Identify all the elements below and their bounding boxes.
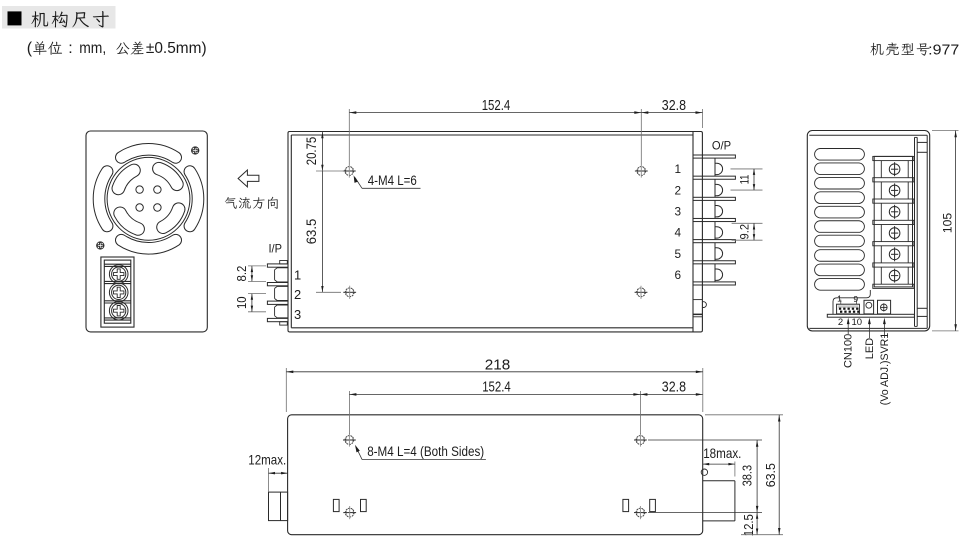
- svg-text::977: :977: [928, 42, 959, 59]
- dim 9.2 (pocket height): [732, 222, 763, 224]
- svg-text:±0.5mm): ±0.5mm): [146, 40, 207, 57]
- dim 63.5 (bottom view): [705, 414, 783, 416]
- panel screw top-right: [192, 147, 199, 154]
- leader arrow SVR1: [883, 320, 885, 338]
- mounting hole top-left: [343, 164, 356, 177]
- input pin flange bars: [267, 264, 288, 267]
- svg-text:12.5: 12.5: [742, 514, 756, 536]
- svg-text:(Vo ADJ.)SVR1: (Vo ADJ.)SVR1: [879, 333, 891, 406]
- svg-text:3: 3: [294, 307, 301, 322]
- output pin flange bars: [693, 155, 735, 158]
- svg-text:5: 5: [675, 247, 682, 261]
- top view outline: [288, 132, 702, 332]
- svg-text:3: 3: [675, 205, 682, 219]
- dim 32.8 (top view): [702, 109, 704, 128]
- mounting hole bottom-right: [635, 286, 648, 299]
- dim 38.3: [648, 439, 762, 441]
- svg-text:152.4: 152.4: [482, 98, 511, 114]
- fan outer vent slots: [116, 144, 182, 164]
- svg-text:LED: LED: [864, 338, 876, 359]
- svg-text:2: 2: [838, 317, 843, 328]
- bottom view slots: [333, 499, 339, 511]
- svg-text:4: 4: [675, 226, 682, 240]
- svg-text:9: 9: [853, 294, 858, 304]
- bump circle on right edge: [701, 469, 707, 475]
- airflow direction arrow: [238, 170, 259, 187]
- output pin pockets: [714, 158, 716, 176]
- svg-text:CN100: CN100: [843, 334, 855, 368]
- side terminal screw 4: [889, 226, 900, 240]
- svg-text:1: 1: [837, 293, 842, 303]
- svg-text:9.2: 9.2: [738, 224, 752, 240]
- side view outline: [807, 131, 929, 331]
- potentiometer SVR1: [878, 300, 891, 314]
- side terminal screw 2: [889, 183, 900, 197]
- svg-text:1: 1: [675, 162, 682, 176]
- dim 105 (side view): [932, 130, 959, 132]
- fan grille ring: [107, 157, 190, 240]
- case model label 机壳型号:977: [870, 43, 883, 56]
- svg-text:11: 11: [738, 174, 752, 184]
- svg-text:O/P: O/P: [712, 139, 731, 152]
- side flange strip: [914, 137, 916, 326]
- airflow direction label 气流方向: [225, 197, 237, 209]
- svg-text:mm,: mm,: [79, 40, 106, 57]
- bottom view mounting hole bottom-left: [343, 506, 356, 519]
- svg-text:2: 2: [294, 287, 301, 302]
- dim 152.4 (bottom view): [348, 391, 350, 434]
- bottom view mounting hole bottom-right: [634, 506, 647, 519]
- side terminal screw 3: [889, 205, 900, 219]
- svg-text:I/P: I/P: [268, 242, 282, 255]
- front terminal screw 2: [109, 283, 128, 302]
- right protrusion (output terminal): [703, 480, 735, 482]
- bottom panel recess outline: [833, 290, 870, 314]
- svg-text:32.8: 32.8: [662, 380, 686, 396]
- svg-text:6: 6: [675, 268, 682, 282]
- side terminal screw 5: [889, 247, 900, 261]
- mounting hole top-right: [635, 164, 648, 177]
- input pin blocks: [275, 268, 288, 282]
- front terminal screw 1: [109, 265, 128, 284]
- dim 20.75 (top view): [321, 132, 323, 172]
- svg-text:1: 1: [294, 267, 301, 282]
- fan hub holes: [136, 186, 143, 193]
- dim 10 (input pin): [248, 293, 266, 295]
- chassis stud bump: [693, 299, 702, 301]
- dim 32.8 (bottom view): [640, 393, 702, 395]
- svg-text:32.8: 32.8: [662, 98, 686, 114]
- front terminal screw 3: [109, 301, 128, 320]
- side terminal screw 6: [889, 269, 900, 283]
- svg-text:8-M4 L=4 (Both Sides): 8-M4 L=4 (Both Sides): [367, 444, 484, 459]
- svg-text:10: 10: [235, 296, 249, 309]
- top view inner edge lines: [290, 135, 292, 328]
- svg-text:105: 105: [941, 213, 955, 233]
- leader arrow CN100: [847, 320, 849, 334]
- dim 11 (output pin pitch): [731, 168, 763, 170]
- connector CN100: [837, 304, 860, 314]
- dim 63.5 (top view): [321, 171, 323, 292]
- svg-text:38.3: 38.3: [741, 465, 755, 486]
- svg-text:63.5: 63.5: [764, 463, 778, 487]
- title bullet square: [8, 11, 22, 25]
- dim 8.2 (input pin): [248, 265, 266, 267]
- svg-text:218: 218: [485, 357, 511, 373]
- dim 12.5: [756, 513, 758, 535]
- fan inner vent slots: [153, 162, 184, 190]
- side view inner edges: [809, 134, 927, 136]
- svg-text:(: (: [27, 40, 33, 57]
- panel screw mid-left: [97, 242, 104, 249]
- svg-text::: :: [68, 40, 72, 57]
- LED: [864, 300, 874, 314]
- svg-text:4-M4 L=6: 4-M4 L=6: [368, 173, 417, 188]
- flange slot top: [917, 141, 927, 143]
- bottom view outline: [288, 415, 703, 535]
- front terminal block: [101, 257, 134, 327]
- mounting hole bottom-left: [343, 286, 356, 299]
- svg-text:10: 10: [852, 317, 863, 328]
- svg-text:8.2: 8.2: [235, 266, 249, 282]
- svg-text:63.5: 63.5: [303, 219, 319, 245]
- pcb edge bar: [827, 314, 914, 317]
- svg-text:12max.: 12max.: [248, 452, 286, 467]
- svg-text:20.75: 20.75: [303, 137, 319, 166]
- bottom view mounting hole top-left: [343, 433, 356, 446]
- front view outline: [86, 131, 207, 332]
- dim 152.4 (top view): [348, 109, 350, 165]
- left protrusion (AC inlet): [269, 492, 288, 520]
- side terminal block: [874, 156, 912, 287]
- title text 机构尺寸: [31, 11, 48, 27]
- title highlight bar: [2, 6, 116, 29]
- dim 218: [285, 368, 287, 412]
- svg-text:18max.: 18max.: [703, 446, 741, 461]
- flange slot bottom: [917, 307, 927, 309]
- side terminal screw 1: [889, 162, 900, 176]
- svg-text:152.4: 152.4: [482, 380, 511, 396]
- leader arrow LED: [868, 320, 870, 338]
- bottom view mounting hole top-right: [634, 433, 647, 446]
- svg-text:2: 2: [675, 183, 682, 197]
- side vent slots: [815, 149, 865, 161]
